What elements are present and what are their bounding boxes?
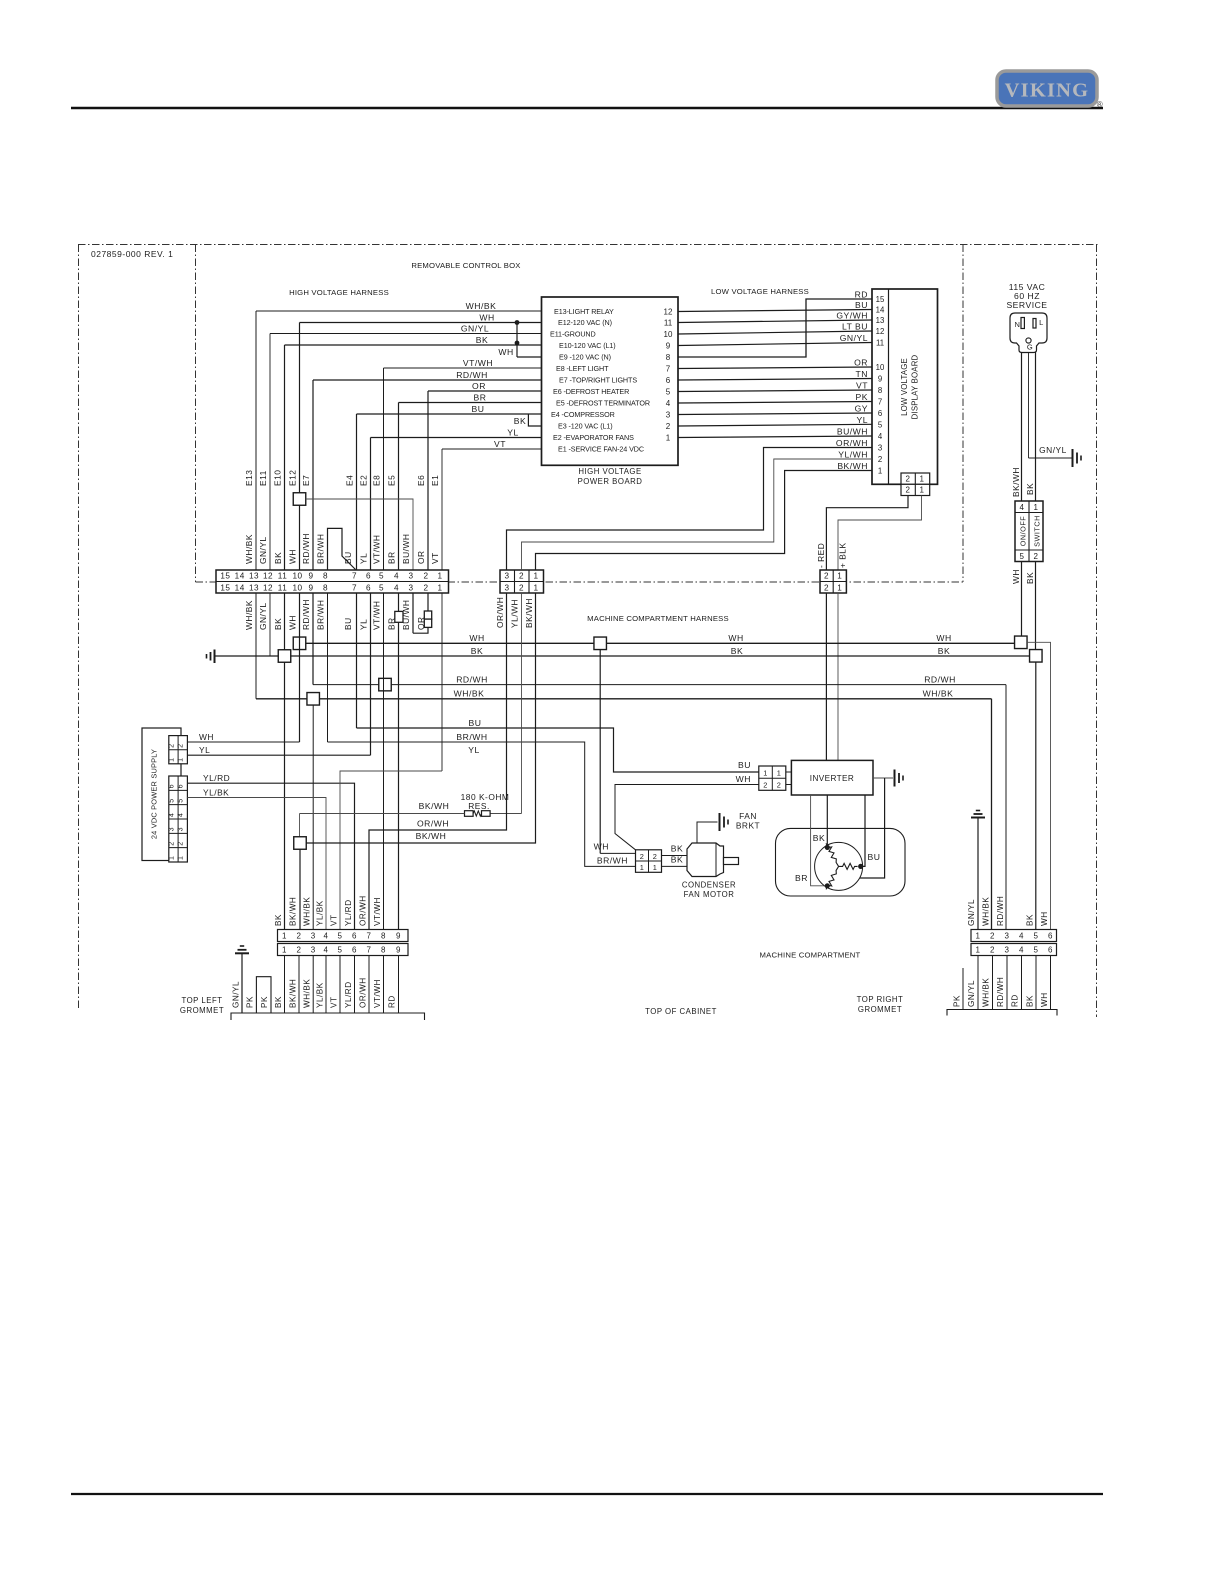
wire power pin 6 to display pin 9 (TN) bbox=[678, 379, 872, 381]
svg-text:5: 5 bbox=[168, 798, 175, 802]
svg-text:2: 2 bbox=[1034, 552, 1039, 561]
ground symbol fan brkt bar1 bbox=[719, 813, 721, 831]
wire E5 BR drop bbox=[398, 403, 400, 571]
svg-text:3: 3 bbox=[408, 571, 413, 580]
wire J8 pin 5 to grommet bbox=[1035, 956, 1037, 1010]
svg-text:8: 8 bbox=[381, 932, 386, 941]
switch S1 bottom cell line bbox=[1015, 549, 1043, 551]
svg-text:INVERTER: INVERTER bbox=[810, 774, 854, 783]
svg-text:2: 2 bbox=[423, 571, 428, 580]
left harness wire WH horizontal bbox=[300, 322, 542, 324]
svg-text:13: 13 bbox=[249, 583, 259, 592]
svg-text:BU: BU bbox=[469, 718, 482, 728]
svg-text:14: 14 bbox=[235, 571, 245, 580]
svg-text:7: 7 bbox=[878, 398, 882, 407]
junction square WH branch bbox=[293, 493, 306, 506]
removable control box border bottom bbox=[196, 581, 964, 583]
svg-text:1: 1 bbox=[1034, 503, 1039, 512]
svg-text:3: 3 bbox=[666, 410, 671, 419]
wire WH square to grommet right bbox=[1027, 642, 1051, 929]
svg-text:BK: BK bbox=[671, 855, 683, 865]
wire GN/YL to ground bbox=[1029, 457, 1072, 459]
svg-text:E13-LIGHT RELAY: E13-LIGHT RELAY bbox=[554, 307, 614, 316]
wire WH branch to pin 3 BU/WH bbox=[306, 499, 413, 570]
wire BR/WH harness to condenser bbox=[328, 742, 636, 866]
ground symbol inverter bar3 bbox=[902, 776, 904, 781]
svg-text:GROMMET: GROMMET bbox=[858, 1005, 902, 1014]
svg-text:5: 5 bbox=[1034, 946, 1039, 955]
svg-text:15: 15 bbox=[220, 571, 230, 580]
svg-text:WH: WH bbox=[1011, 569, 1021, 584]
svg-text:5: 5 bbox=[1020, 552, 1025, 561]
wire display pin 1 BK/WH to J2 bbox=[536, 471, 873, 571]
wire E1 VT drop bbox=[441, 449, 443, 570]
ground symbol GN/YL right bar1 bbox=[976, 810, 980, 812]
svg-text:13: 13 bbox=[249, 571, 259, 580]
wire BU inverter to compressor bbox=[863, 795, 865, 866]
wire BK/WH J2-1 to square bbox=[307, 593, 536, 843]
wire PK stub right grommet bbox=[962, 968, 964, 1010]
low voltage display board U2 bbox=[872, 289, 938, 484]
connector J8 top body bbox=[971, 930, 1057, 942]
svg-text:027859-000 REV. 1: 027859-000 REV. 1 bbox=[91, 249, 173, 259]
wire YL supply pin 1 bbox=[187, 754, 370, 756]
wire E10 BK drop bbox=[284, 345, 286, 570]
wire J8 pin 3 to grommet bbox=[1006, 956, 1008, 1010]
svg-text:TOP OF CABINET: TOP OF CABINET bbox=[645, 1007, 717, 1016]
display board inner rail bbox=[888, 289, 890, 484]
svg-text:3: 3 bbox=[311, 932, 316, 941]
svg-text:OR: OR bbox=[416, 550, 426, 564]
svg-text:8: 8 bbox=[381, 946, 386, 955]
svg-text:E4 -COMPRESSOR: E4 -COMPRESSOR bbox=[551, 410, 615, 419]
svg-text:2: 2 bbox=[824, 583, 829, 592]
condenser connector J5 body bbox=[636, 850, 662, 873]
svg-text:BRKT: BRKT bbox=[736, 821, 760, 831]
left harness wire BK horizontal bbox=[285, 344, 542, 346]
wire VT/WH J1-5 to grommet bbox=[383, 593, 385, 930]
svg-text:5: 5 bbox=[878, 420, 883, 429]
svg-text:4: 4 bbox=[324, 946, 329, 955]
svg-text:VT/WH: VT/WH bbox=[373, 897, 382, 926]
junction dot WH tie bottom bbox=[515, 341, 520, 346]
wire WH into condenser pin 2 bbox=[600, 852, 635, 854]
wire VT J1-1 to grommet pin 5 bbox=[340, 771, 442, 930]
svg-text:OR/WH: OR/WH bbox=[417, 819, 449, 829]
svg-text:BK: BK bbox=[731, 646, 743, 656]
svg-text:2: 2 bbox=[519, 583, 524, 592]
connector J1 body bbox=[216, 570, 449, 593]
svg-text:2: 2 bbox=[423, 583, 428, 592]
svg-text:BK: BK bbox=[274, 996, 283, 1008]
wire J7 pin 7 to grommet bbox=[368, 956, 370, 1014]
svg-text:HIGH VOLTAGE HARNESS: HIGH VOLTAGE HARNESS bbox=[289, 288, 389, 297]
svg-text:E6: E6 bbox=[416, 475, 426, 486]
svg-text:BK: BK bbox=[813, 833, 825, 843]
svg-text:BK/WH: BK/WH bbox=[1011, 467, 1021, 497]
svg-text:5: 5 bbox=[666, 387, 671, 396]
svg-text:YL/RD: YL/RD bbox=[344, 981, 353, 1008]
svg-text:14: 14 bbox=[235, 583, 245, 592]
svg-text:1: 1 bbox=[878, 467, 882, 476]
svg-text:13: 13 bbox=[876, 316, 885, 325]
svg-text:BU: BU bbox=[868, 852, 881, 862]
svg-text:8: 8 bbox=[323, 571, 328, 580]
left harness wire VT horizontal bbox=[442, 448, 542, 450]
svg-text:5: 5 bbox=[178, 798, 185, 802]
svg-text:BK: BK bbox=[938, 646, 950, 656]
svg-text:RD/WH: RD/WH bbox=[996, 977, 1005, 1007]
harness wire WH horizontal bbox=[306, 642, 1015, 644]
svg-text:E5 -DEFROST TERMINATOR: E5 -DEFROST TERMINATOR bbox=[556, 399, 650, 408]
svg-text:WH: WH bbox=[288, 615, 298, 630]
svg-text:BK: BK bbox=[514, 416, 526, 426]
wire J7 pin 8 to grommet bbox=[383, 956, 385, 1014]
svg-text:E7: E7 bbox=[301, 475, 311, 486]
resistor R1 right cap bbox=[482, 811, 491, 817]
svg-text:FAN: FAN bbox=[739, 811, 757, 821]
svg-text:WH: WH bbox=[288, 549, 298, 564]
connector J8 bottom body bbox=[971, 944, 1057, 956]
connector J4 divider bbox=[832, 570, 834, 593]
Viking logo badge bbox=[997, 71, 1097, 106]
component on OR wire lower bbox=[424, 619, 431, 627]
svg-text:WH: WH bbox=[1040, 911, 1049, 926]
wire BR inverter to compressor bbox=[811, 795, 825, 886]
wire E11 GN/YL drop bbox=[269, 334, 271, 571]
svg-text:WH/BK: WH/BK bbox=[303, 897, 312, 926]
svg-text:BK: BK bbox=[1026, 914, 1035, 926]
svg-text:VT: VT bbox=[856, 381, 868, 391]
svg-text:OR/WH: OR/WH bbox=[836, 438, 868, 448]
svg-text:11: 11 bbox=[664, 318, 673, 327]
wire ground to BK square bbox=[214, 655, 278, 657]
inverter connector stub 2 bbox=[786, 784, 792, 786]
svg-text:2: 2 bbox=[178, 841, 185, 845]
harness wire WH/BK horizontal bbox=[256, 698, 992, 700]
svg-text:WH/BK: WH/BK bbox=[923, 689, 954, 699]
svg-text:1: 1 bbox=[837, 571, 842, 580]
svg-text:E10-120 VAC (L1): E10-120 VAC (L1) bbox=[559, 341, 616, 350]
power supply connector 6pin bbox=[169, 776, 188, 862]
connector J3 divider bbox=[914, 473, 916, 496]
wire E6 OR drop bbox=[427, 391, 429, 570]
svg-text:4: 4 bbox=[1020, 503, 1025, 512]
condenser connector divider h bbox=[636, 860, 662, 862]
svg-text:9: 9 bbox=[396, 932, 401, 941]
svg-text:E1 -SERVICE FAN-24 VDC: E1 -SERVICE FAN-24 VDC bbox=[558, 445, 644, 454]
svg-text:15: 15 bbox=[220, 583, 230, 592]
svg-text:E12: E12 bbox=[288, 470, 298, 486]
svg-text:GN/YL: GN/YL bbox=[258, 536, 268, 564]
svg-text:E2: E2 bbox=[359, 475, 369, 486]
svg-text:1: 1 bbox=[920, 474, 925, 483]
wire power pin 1 to display pin 4 (BU/WH) bbox=[678, 436, 872, 438]
connector J4 body bbox=[820, 570, 846, 593]
svg-text:OR/WH: OR/WH bbox=[495, 597, 505, 628]
wire BR J1-4 drop upper bbox=[398, 593, 400, 611]
wire RD/WH J1-9 drop bbox=[312, 593, 314, 685]
wire BK square to grommet right bbox=[1035, 662, 1037, 930]
svg-text:1: 1 bbox=[282, 946, 287, 955]
svg-text:E7 -TOP/RIGHT LIGHTS: E7 -TOP/RIGHT LIGHTS bbox=[559, 376, 637, 385]
svg-text:BK: BK bbox=[1025, 483, 1035, 495]
svg-text:BR: BR bbox=[474, 392, 487, 402]
svg-text:VIKING: VIKING bbox=[1005, 80, 1090, 102]
connector J2 divider 2 bbox=[528, 570, 530, 593]
svg-text:WH/BK: WH/BK bbox=[466, 301, 497, 311]
svg-text:+ BLK: + BLK bbox=[838, 542, 848, 568]
svg-text:GY: GY bbox=[855, 404, 868, 414]
svg-text:E3 -120 VAC (L1): E3 -120 VAC (L1) bbox=[558, 422, 613, 431]
wire BU J1-7 drop bbox=[356, 593, 358, 728]
wire inverter ground bbox=[873, 777, 893, 779]
ground symbol inverter bar2 bbox=[898, 773, 900, 783]
svg-text:1: 1 bbox=[533, 571, 538, 580]
svg-text:WH/BK: WH/BK bbox=[244, 534, 254, 564]
svg-text:WH: WH bbox=[199, 732, 214, 742]
svg-text:YL: YL bbox=[856, 415, 868, 425]
junction square WH left bbox=[293, 637, 306, 650]
inverter connector divider v bbox=[771, 766, 773, 790]
svg-text:YL: YL bbox=[359, 553, 369, 564]
svg-text:2: 2 bbox=[666, 422, 671, 431]
svg-text:8: 8 bbox=[323, 583, 328, 592]
wire E12 WH drop bbox=[299, 323, 301, 571]
wire VT J1-1 drop bbox=[441, 593, 443, 771]
resistor R1 zigzag bbox=[473, 811, 481, 816]
wire -RED J4 to inverter bbox=[825, 593, 827, 760]
cord BK wire plug to switch bbox=[1035, 353, 1037, 502]
svg-text:2: 2 bbox=[824, 571, 829, 580]
svg-text:RD/WH: RD/WH bbox=[456, 370, 488, 380]
ground symbol GN/YL right bar3 bbox=[971, 817, 985, 819]
svg-text:2: 2 bbox=[990, 946, 995, 955]
inverter connector J6 body bbox=[759, 766, 786, 790]
svg-text:E10: E10 bbox=[273, 470, 283, 486]
wire power pin 2 to display pin 5 (YL) bbox=[678, 424, 872, 426]
svg-text:2: 2 bbox=[990, 932, 995, 941]
harness wire RD/WH horizontal bbox=[313, 684, 1006, 686]
wire 180K to BK/WH square bbox=[299, 814, 301, 837]
wire E9-E12 WH tie vertical bbox=[516, 323, 518, 358]
wire OR component to BU/WH bbox=[413, 627, 428, 633]
wire condenser motor ground bbox=[697, 822, 718, 843]
wire BK condenser bottom bbox=[662, 865, 688, 867]
svg-text:1: 1 bbox=[178, 856, 185, 860]
ground symbol fan brkt bar3 bbox=[727, 820, 729, 825]
wire +BLK J4 to inverter bbox=[837, 593, 839, 760]
svg-text:BU/WH: BU/WH bbox=[837, 427, 868, 437]
left harness wire YL horizontal bbox=[371, 437, 542, 439]
wire E7 RD/WH drop bbox=[312, 380, 314, 570]
wire OR J1-2 drop upper bbox=[427, 593, 429, 611]
junction dot WH tie top bbox=[515, 320, 520, 325]
wire display pin 2 YL/WH to J2 bbox=[522, 459, 873, 570]
wire power pin 10 to display pin 12 (LT BU) bbox=[678, 331, 872, 334]
wire WH square to condenser bbox=[599, 650, 601, 854]
junction square WH mid bbox=[594, 637, 607, 650]
svg-text:YL: YL bbox=[507, 427, 519, 437]
svg-text:GN/YL: GN/YL bbox=[232, 981, 241, 1008]
svg-text:L: L bbox=[1039, 318, 1044, 327]
svg-text:7: 7 bbox=[367, 946, 372, 955]
wire E4 BU drop bbox=[356, 414, 358, 570]
svg-text:RES.: RES. bbox=[468, 801, 490, 811]
PK loop wire bbox=[256, 977, 271, 1013]
svg-text:1: 1 bbox=[837, 583, 842, 592]
wire J8 pin 4 to grommet bbox=[1021, 956, 1023, 1010]
svg-text:VT: VT bbox=[494, 439, 506, 449]
svg-text:1: 1 bbox=[168, 856, 175, 860]
svg-text:4: 4 bbox=[324, 932, 329, 941]
svg-text:BK: BK bbox=[476, 335, 488, 345]
svg-text:PK: PK bbox=[953, 995, 962, 1007]
svg-text:GN/YL: GN/YL bbox=[258, 602, 268, 630]
connector J2 body bbox=[500, 570, 544, 593]
page footer rule bbox=[71, 1493, 1103, 1495]
svg-text:E6 -DEFROST HEATER: E6 -DEFROST HEATER bbox=[553, 387, 629, 396]
svg-text:1: 1 bbox=[763, 768, 768, 777]
svg-text:GROMMET: GROMMET bbox=[180, 1006, 224, 1015]
svg-text:6: 6 bbox=[352, 932, 357, 941]
condenser fan motor shaft bbox=[724, 858, 739, 865]
svg-text:BU: BU bbox=[738, 760, 751, 770]
svg-text:6: 6 bbox=[366, 571, 371, 580]
svg-text:E8 -LEFT LIGHT: E8 -LEFT LIGHT bbox=[556, 364, 609, 373]
svg-text:24 VDC POWER SUPPLY: 24 VDC POWER SUPPLY bbox=[150, 749, 159, 839]
wire WH supply pin 2 bbox=[187, 741, 299, 743]
power supply 6pin divider h 2 bbox=[169, 832, 188, 834]
junction square BK right bbox=[1030, 650, 1043, 663]
wire E8 VT/WH drop bbox=[383, 368, 385, 570]
svg-text:YL/WH: YL/WH bbox=[510, 599, 520, 628]
svg-text:2: 2 bbox=[178, 743, 185, 747]
ground symbol G2 bar2 bbox=[210, 652, 212, 661]
svg-text:6: 6 bbox=[666, 376, 671, 385]
svg-text:4: 4 bbox=[168, 813, 175, 817]
svg-text:9: 9 bbox=[878, 375, 882, 384]
wire YL J1-6 drop bbox=[370, 593, 372, 755]
svg-text:BU/WH: BU/WH bbox=[401, 534, 411, 564]
svg-text:BK/WH: BK/WH bbox=[289, 897, 298, 926]
svg-text:BR/WH: BR/WH bbox=[316, 534, 326, 564]
wire WH/BK J1-13 drop bbox=[255, 593, 257, 699]
svg-text:4: 4 bbox=[878, 432, 883, 441]
outer border right bbox=[1096, 245, 1098, 1018]
cord GN/YL wire plug bbox=[1028, 353, 1030, 459]
svg-text:MACHINE COMPARTMENT HARNESS: MACHINE COMPARTMENT HARNESS bbox=[587, 614, 729, 623]
wire BK condenser top bbox=[662, 855, 688, 857]
svg-text:3: 3 bbox=[1005, 946, 1010, 955]
svg-text:6: 6 bbox=[366, 583, 371, 592]
wire 180K line left bbox=[300, 813, 465, 815]
connector J7 bottom body bbox=[278, 944, 409, 956]
left harness wire BU horizontal bbox=[357, 413, 542, 415]
svg-text:BK/WH: BK/WH bbox=[419, 801, 450, 811]
svg-text:7: 7 bbox=[666, 364, 671, 373]
svg-text:VT: VT bbox=[430, 552, 440, 564]
svg-text:BU: BU bbox=[472, 404, 485, 414]
svg-text:RD/WH: RD/WH bbox=[301, 533, 311, 564]
svg-text:4: 4 bbox=[394, 571, 399, 580]
page header rule bbox=[71, 107, 1103, 110]
svg-text:WH: WH bbox=[594, 842, 609, 852]
svg-text:WH/BK: WH/BK bbox=[982, 897, 991, 926]
svg-text:LT BU: LT BU bbox=[842, 322, 868, 332]
svg-text:BR/WH: BR/WH bbox=[316, 600, 326, 630]
resistor R1 left cap bbox=[465, 811, 474, 817]
svg-text:BR/WH: BR/WH bbox=[597, 856, 628, 866]
svg-text:12: 12 bbox=[876, 327, 885, 336]
svg-text:3: 3 bbox=[178, 827, 185, 831]
svg-text:REMOVABLE CONTROL BOX: REMOVABLE CONTROL BOX bbox=[411, 261, 520, 270]
svg-text:2: 2 bbox=[878, 455, 882, 464]
svg-text:E2 -EVAPORATOR FANS: E2 -EVAPORATOR FANS bbox=[553, 433, 634, 442]
compressor M2 case bbox=[776, 828, 906, 896]
svg-text:9: 9 bbox=[308, 571, 313, 580]
left harness wire OR horizontal bbox=[428, 390, 542, 392]
svg-text:12: 12 bbox=[664, 307, 673, 316]
svg-text:7: 7 bbox=[367, 932, 372, 941]
svg-text:2: 2 bbox=[906, 474, 911, 483]
svg-text:5: 5 bbox=[338, 932, 343, 941]
svg-text:BR/WH: BR/WH bbox=[456, 732, 487, 742]
wire display pin 3 OR/WH to J2 bbox=[507, 448, 873, 571]
svg-text:11: 11 bbox=[278, 583, 288, 592]
outer border top bbox=[78, 244, 1098, 246]
wire -RED display to J4 bbox=[826, 496, 908, 571]
svg-text:7: 7 bbox=[352, 571, 357, 580]
connector J2 mid line bbox=[500, 581, 544, 583]
svg-text:1: 1 bbox=[282, 932, 287, 941]
plug neutral slot bbox=[1021, 318, 1024, 329]
svg-text:RD: RD bbox=[388, 995, 397, 1008]
svg-text:BK: BK bbox=[273, 552, 283, 564]
left harness wire WH2 horizontal bbox=[517, 356, 542, 358]
wire GN/YL J1-12 to ground line bbox=[269, 593, 271, 656]
svg-text:9: 9 bbox=[308, 583, 313, 592]
svg-text:GN/YL: GN/YL bbox=[461, 323, 489, 333]
wire YL/BK supply to grommet bbox=[187, 798, 326, 930]
svg-text:E5: E5 bbox=[387, 475, 397, 486]
wire E13 WH/BK drop bbox=[255, 311, 257, 570]
svg-text:POWER BOARD: POWER BOARD bbox=[578, 477, 643, 486]
svg-text:WH/BK: WH/BK bbox=[982, 978, 991, 1007]
svg-text:DISPLAY BOARD: DISPLAY BOARD bbox=[911, 354, 920, 419]
wire BU harness to inverter bbox=[357, 728, 759, 772]
svg-text:YL/WH: YL/WH bbox=[838, 450, 868, 460]
svg-text:SERVICE: SERVICE bbox=[1006, 300, 1047, 310]
svg-text:14: 14 bbox=[876, 306, 885, 315]
svg-text:9: 9 bbox=[396, 946, 401, 955]
svg-text:BR: BR bbox=[795, 873, 808, 883]
svg-text:1: 1 bbox=[533, 583, 538, 592]
svg-text:2: 2 bbox=[519, 571, 524, 580]
svg-text:BK/WH: BK/WH bbox=[524, 598, 534, 628]
wire J8 pin 1 to grommet bbox=[977, 956, 979, 1010]
wire power pin 5 to display pin 8 (VT) bbox=[678, 390, 872, 392]
svg-text:TN: TN bbox=[856, 369, 868, 379]
wire J7 pin 4 to grommet bbox=[325, 956, 327, 1014]
svg-text:4: 4 bbox=[178, 813, 185, 817]
power supply 6pin divider h 5 bbox=[169, 789, 188, 791]
svg-text:2: 2 bbox=[168, 841, 175, 845]
svg-text:VT/WH: VT/WH bbox=[372, 535, 382, 564]
svg-text:YL/BK: YL/BK bbox=[316, 982, 325, 1008]
svg-text:BR: BR bbox=[387, 551, 397, 564]
left harness wire GN/YL horizontal bbox=[270, 333, 542, 335]
